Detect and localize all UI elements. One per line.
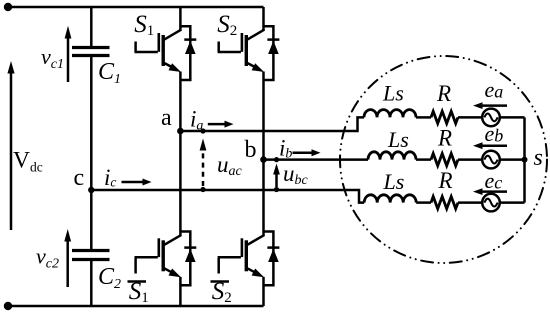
wire phase c resistor to source: [458, 201, 482, 204]
wire phase b row: [264, 158, 369, 161]
wire leg2 collector: [262, 7, 265, 31]
transistor S1: [135, 26, 197, 80]
svg-text:Ls: Ls: [387, 127, 409, 152]
motor boundary dash-dot circle: [340, 56, 547, 263]
wire phase c coil to resistor: [416, 201, 431, 204]
svg-text:uac: uac: [217, 152, 243, 179]
wire S2 gate stub: [217, 42, 220, 53]
svg-text:C2: C2: [98, 264, 121, 292]
wire S2bar gate stub: [217, 258, 220, 274]
svg-text:Ls: Ls: [382, 81, 404, 106]
svg-text:S1: S1: [134, 11, 154, 39]
wire leg1 middle (through node a): [179, 72, 182, 236]
wire phase a coil to resistor: [416, 116, 431, 119]
current arrow ia: [208, 121, 234, 128]
wire phase a source to bus: [500, 116, 525, 119]
svg-text:ec: ec: [485, 168, 503, 193]
svg-text:R: R: [436, 81, 451, 106]
wire neutral bus: [523, 117, 526, 202]
svg-text:a: a: [161, 105, 172, 131]
svg-text:eb: eb: [485, 121, 504, 146]
capacitor C1: [72, 48, 110, 56]
source ec: [482, 194, 500, 212]
node bottom-left junction: [4, 302, 12, 310]
wire leg2 middle (through node b): [262, 72, 265, 236]
svg-text:vc2: vc2: [36, 244, 59, 272]
wire leg1 collector: [179, 7, 182, 31]
node s junction dot: [522, 157, 528, 163]
wire capacitor branch middle: [90, 57, 93, 249]
wire phase b source to bus: [500, 158, 525, 161]
voltage indicator ubc: [273, 157, 280, 192]
wire S1bar gate stub: [134, 258, 137, 274]
current arrow ic: [122, 179, 152, 186]
svg-text:S2: S2: [217, 11, 237, 39]
svg-text:ib: ib: [279, 136, 292, 162]
eb arrow: [473, 142, 507, 149]
inductor Ls phase c: [364, 195, 416, 203]
wire capacitor branch lower: [90, 261, 93, 306]
Vdc voltage arrow: [7, 61, 14, 230]
svg-text:Ls: Ls: [383, 169, 405, 194]
svg-text:ubc: ubc: [283, 161, 309, 188]
wire top DC rail: [8, 6, 264, 9]
svg-text:R: R: [438, 168, 453, 193]
vc1 voltage arrow: [65, 26, 72, 82]
svg-text:b: b: [245, 137, 257, 163]
wire phase b resistor to source: [458, 158, 482, 161]
svg-text:Vdc: Vdc: [13, 148, 43, 175]
label S2bar: [212, 278, 232, 306]
wire phase b coil to resistor: [416, 158, 431, 161]
wire leg1 emitter bottom: [179, 277, 182, 306]
resistor R phase c: [431, 197, 458, 209]
wire phase a row: [180, 117, 364, 131]
voltage indicator uac (dashed): [200, 128, 207, 192]
transistor S1bar: [135, 232, 197, 286]
wire phase c row: [91, 190, 364, 203]
svg-text:ea: ea: [485, 77, 504, 102]
wire S1 gate stub: [134, 42, 137, 53]
wire capacitor branch upper: [90, 7, 93, 46]
label S1bar: [129, 278, 149, 306]
current arrow ib: [293, 149, 321, 156]
wire phase c source to bus: [500, 201, 525, 204]
transistor S2bar: [218, 232, 280, 286]
wire bottom DC rail: [8, 305, 264, 308]
node top-left junction: [4, 3, 12, 11]
source ea: [482, 109, 500, 127]
svg-text:s: s: [534, 145, 543, 171]
node a junction dot: [177, 128, 184, 135]
resistor R phase a: [431, 111, 458, 123]
wire leg2 emitter bottom: [262, 277, 265, 306]
ec arrow: [473, 188, 507, 195]
svg-text:ic: ic: [104, 165, 116, 190]
wire phase a resistor to source: [458, 116, 482, 119]
node c junction dot: [88, 187, 94, 193]
ea arrow: [473, 102, 507, 109]
svg-text:c: c: [74, 165, 85, 191]
node b junction dot: [260, 156, 267, 163]
transistor S2: [218, 26, 280, 80]
source eb: [482, 151, 500, 169]
inductor Ls phase a: [364, 110, 416, 118]
resistor R phase b: [431, 154, 458, 166]
inductor Ls phase b: [368, 152, 416, 160]
capacitor C2: [72, 251, 110, 260]
svg-text:C1: C1: [98, 59, 121, 87]
svg-text:R: R: [437, 126, 452, 151]
vc2 voltage arrow: [64, 229, 71, 287]
svg-text:vc1: vc1: [41, 44, 64, 72]
